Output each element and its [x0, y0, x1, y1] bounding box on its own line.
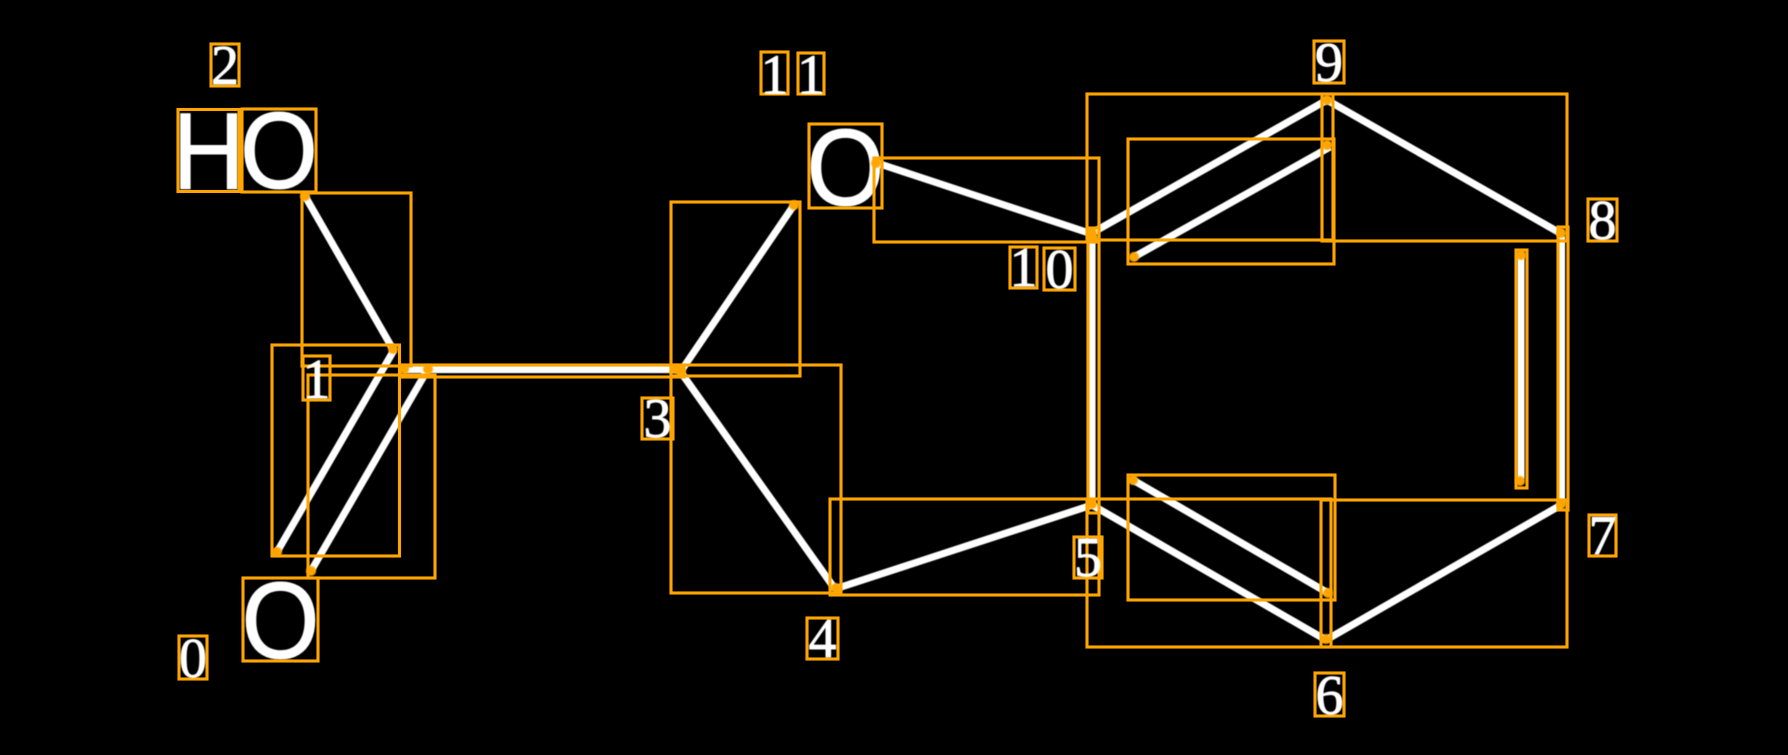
svg-text:1: 1	[303, 349, 331, 411]
svg-text:2: 2	[211, 35, 239, 97]
svg-text:3: 3	[644, 388, 672, 450]
svg-text:1: 1	[797, 45, 825, 107]
svg-text:4: 4	[809, 608, 837, 670]
svg-text:1: 1	[761, 45, 789, 107]
svg-text:1: 1	[1010, 237, 1038, 299]
svg-text:6: 6	[1316, 665, 1344, 727]
svg-text:9: 9	[1315, 32, 1343, 94]
svg-text:0: 0	[1046, 239, 1074, 301]
svg-text:5: 5	[1074, 527, 1102, 589]
svg-text:7: 7	[1589, 505, 1617, 567]
svg-text:8: 8	[1589, 190, 1617, 252]
svg-text:0: 0	[179, 628, 207, 690]
